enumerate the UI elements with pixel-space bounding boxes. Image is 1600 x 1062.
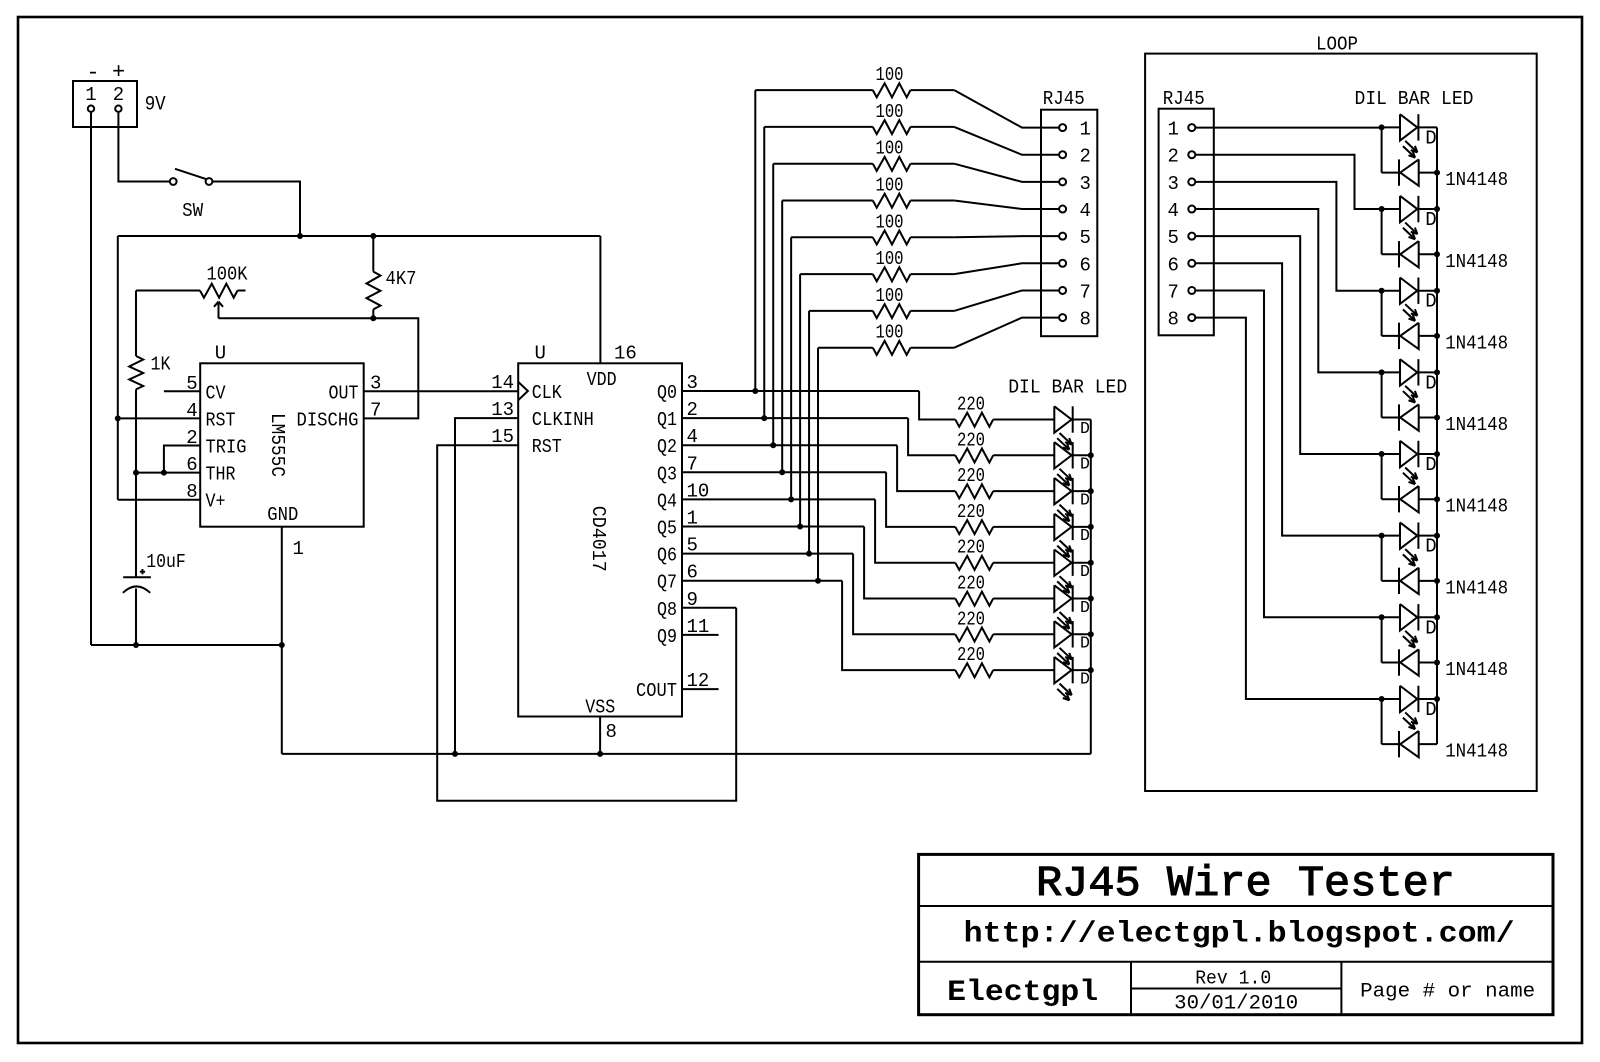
wire D10 anode to 1N4148 [1381, 209, 1383, 254]
J2 pin 6 number [1080, 254, 1091, 276]
LED D6 [1054, 585, 1072, 628]
wire 1N4148 D23 cathode lead [1382, 662, 1399, 664]
J3 pin 8 circle [1188, 314, 1195, 321]
resistor R6 100 body [800, 267, 954, 281]
wire wiper to DISCHG [219, 318, 419, 418]
wire D16 anode to 1N4148 [1381, 699, 1383, 744]
wire CLKINH pin 13 to ground rail [455, 418, 518, 754]
svg-text:D: D [1080, 669, 1090, 688]
LED D12 label D [1425, 372, 1436, 394]
resistor R8 100 body [818, 341, 954, 355]
svg-text:1: 1 [85, 84, 96, 106]
svg-text:D: D [1080, 419, 1090, 438]
switch SW throw circle [206, 178, 213, 185]
wire 1N4148 D19 cathode lead [1382, 335, 1399, 337]
svg-text:220: 220 [957, 465, 985, 487]
J3 pin 4 number [1167, 200, 1178, 222]
U2 pin 1 number [687, 508, 698, 530]
title block vertical divider 2 [1340, 962, 1342, 1015]
LOOP label [1316, 34, 1358, 56]
U2 pin 16 number [614, 343, 637, 365]
wire Q2 to 220 row 3 [897, 445, 955, 491]
U2 pin 7 number [687, 453, 698, 475]
junction LED D9 anode [1379, 124, 1385, 130]
wire right cathode bus [1436, 127, 1438, 744]
wire 1N4148 D20 cathode lead [1382, 417, 1399, 419]
svg-text:D: D [1080, 562, 1090, 581]
svg-text:D: D [1425, 291, 1436, 313]
J3 pin 5 number [1167, 227, 1178, 249]
wire Vcc rail [118, 235, 601, 237]
wire 4K7 top lead [372, 236, 374, 272]
svg-text:220: 220 [957, 501, 985, 523]
svg-text:1: 1 [1167, 119, 1178, 141]
svg-text:220: 220 [957, 644, 985, 666]
junction LED D14 anode [1379, 533, 1385, 539]
wire CV stub pin 5 [164, 390, 200, 392]
wire 1N4148 D18 cathode lead [1382, 253, 1399, 255]
svg-text:1N4148: 1N4148 [1445, 577, 1508, 599]
diode 1N4148 D18 [1399, 241, 1419, 267]
LED D4 label D [1080, 526, 1090, 545]
junction Q2/100ohm [770, 442, 776, 448]
U2 CLK input triangle [518, 382, 528, 400]
wire D14 anode to 1N4148 [1381, 536, 1383, 581]
junction right bus LED row 6 [1434, 533, 1440, 539]
U2 pin 6 number [687, 562, 698, 584]
U1 RST label [206, 409, 236, 431]
svg-text:Q9: Q9 [657, 626, 677, 648]
junction GND/battery minus rail [279, 642, 285, 648]
U1 pin 8 number [186, 481, 197, 503]
wire LED D9 cathode to bus [1418, 126, 1437, 128]
junction LED D13 anode [1379, 451, 1385, 457]
wire 1N4148 D21 anode to bus [1419, 498, 1437, 500]
svg-text:LM555C: LM555C [266, 413, 288, 477]
wire 1N4148 D17 cathode lead [1382, 172, 1399, 174]
U2 pin 15 number [491, 426, 514, 448]
U2 Q7 label [657, 572, 677, 594]
svg-text:D: D [1425, 372, 1436, 394]
battery connector J1 9V [73, 81, 137, 127]
LED D16 label D [1425, 699, 1436, 721]
wire 100K to 1K [135, 291, 137, 357]
battery polarity minus [86, 61, 99, 86]
U1 pin 6 number [186, 454, 197, 476]
junction LED D11 anode [1379, 288, 1385, 294]
svg-text:Q8: Q8 [657, 599, 677, 621]
J2 pin 2 circle [1059, 151, 1066, 158]
junction right bus diode row 3 [1434, 333, 1440, 339]
U1 pin 3 number [370, 372, 381, 394]
U2 CLK label [532, 382, 563, 404]
svg-text:6: 6 [1080, 254, 1091, 276]
resistor R8 100 label [876, 322, 904, 344]
svg-text:1N4148: 1N4148 [1445, 414, 1508, 436]
svg-text:U: U [215, 343, 226, 365]
U2 pin 13 number [491, 399, 514, 421]
svg-text:RST: RST [206, 409, 236, 431]
title block vertical divider 1 [1130, 962, 1132, 1015]
junction right bus diode row 2 [1434, 251, 1440, 257]
resistor R1 100 body [755, 83, 954, 97]
junction Q0/100ohm [752, 388, 758, 394]
J2 pin 3 circle [1059, 178, 1066, 185]
svg-text:CD4017: CD4017 [587, 506, 609, 572]
U1 V+ label [206, 491, 226, 513]
U1 OUT label [329, 382, 359, 404]
title page [1360, 981, 1535, 1004]
svg-text:1N4148: 1N4148 [1445, 251, 1508, 273]
battery J1 pin 1 circle [88, 106, 94, 112]
diode D18 label 1N4148 [1445, 251, 1508, 273]
svg-text:7: 7 [1167, 281, 1178, 303]
wire R6 to RJ45 pin 6 [954, 263, 1059, 274]
wire R2 to Q1 [763, 127, 765, 418]
resistor R15 220 label [957, 608, 985, 630]
svg-text:Q6: Q6 [657, 545, 677, 567]
battery value 9V [145, 94, 166, 117]
svg-text:TRIG: TRIG [206, 437, 247, 459]
U1 designator U [215, 343, 226, 365]
junction TRIG/THR [161, 470, 167, 476]
resistor R11 220 body [955, 484, 1054, 498]
wire LED D2 cathode to bus [1073, 454, 1091, 456]
svg-text:VDD: VDD [587, 369, 617, 391]
potentiometer 100K body [200, 284, 246, 298]
wire Q1 to 220 row 2 [908, 418, 955, 455]
battery J1 pin label 1 [85, 84, 96, 106]
J2 pin 7 number [1080, 281, 1091, 303]
junction right bus LED row 2 [1434, 206, 1440, 212]
wire Q0 output [682, 390, 919, 392]
wire switch to Vcc rail [212, 182, 300, 237]
wire 1N4148 D20 anode to bus [1419, 417, 1437, 419]
svg-text:3: 3 [1080, 173, 1091, 195]
U1 THR label [206, 464, 236, 486]
wire 1N4148 D19 anode to bus [1419, 335, 1437, 337]
resistor R4 100 label [876, 175, 904, 197]
svg-text:7: 7 [1080, 281, 1091, 303]
J2 pin 8 number [1080, 309, 1091, 331]
U1 DISCHG label [297, 409, 359, 431]
U2 Q5 label [657, 518, 677, 540]
U1 pin 2 number [186, 427, 197, 449]
U2 pin 12 number [687, 670, 710, 692]
J2 pin 2 number [1080, 146, 1091, 168]
svg-text:4K7: 4K7 [386, 268, 417, 290]
svg-text:1N4148: 1N4148 [1445, 332, 1508, 354]
svg-text:D: D [1080, 526, 1090, 545]
svg-text:2: 2 [1080, 146, 1091, 168]
svg-text:Page # or name: Page # or name [1360, 981, 1535, 1004]
title block divider 2 [919, 961, 1553, 963]
LED D2 [1054, 442, 1072, 485]
resistor R3 100 label [876, 138, 904, 160]
junction left bus row 8 [1088, 667, 1094, 673]
J3 pin 6 number [1167, 254, 1178, 276]
wire R7 to Q6 [808, 311, 810, 554]
svg-text:1N4148: 1N4148 [1445, 741, 1508, 763]
U2 Q2 label [657, 436, 677, 458]
junction right bus LED row 3 [1434, 288, 1440, 294]
resistor 4K7 body [367, 272, 381, 310]
LED D1 [1054, 406, 1072, 449]
svg-text:D: D [1425, 617, 1436, 639]
resistor R16 220 body [955, 663, 1054, 677]
svg-text:OUT: OUT [329, 382, 359, 404]
svg-text:CV: CV [206, 382, 227, 404]
svg-text:7: 7 [370, 399, 381, 421]
wire LED D5 cathode to bus [1073, 562, 1091, 564]
wire LED D6 cathode to bus [1073, 598, 1091, 600]
right DIL BAR LED label [1355, 88, 1474, 110]
connector RJ45 J2 label [1043, 88, 1085, 110]
diode 1N4148 D17 [1399, 159, 1419, 185]
resistor R13 220 label [957, 537, 985, 559]
wire 1N4148 D24 cathode lead [1382, 743, 1399, 745]
svg-text:1: 1 [1080, 119, 1091, 141]
J3 pin 8 number [1167, 309, 1178, 331]
svg-text:8: 8 [606, 721, 617, 743]
svg-text:DIL BAR LED: DIL BAR LED [1355, 88, 1474, 110]
U1 TRIG label [206, 437, 247, 459]
battery J1 pin 2 circle [115, 106, 121, 112]
battery J1 pin label 2 [113, 84, 124, 106]
svg-text:-: - [86, 61, 99, 86]
LED D2 label D [1080, 455, 1090, 474]
LED D10 label D [1425, 209, 1436, 231]
junction right bus diode row 6 [1434, 578, 1440, 584]
wire Q5 output [682, 526, 864, 528]
wire RST pin 4 [118, 417, 200, 419]
diode D20 label 1N4148 [1445, 414, 1508, 436]
junction right bus diode row 7 [1434, 660, 1440, 666]
LED D15 [1400, 604, 1418, 647]
svg-text:1N4148: 1N4148 [1445, 496, 1508, 518]
junction right bus LED row 4 [1434, 369, 1440, 375]
wire OUT to CLK [364, 390, 519, 392]
capacitor C1 value 10uF [146, 551, 186, 573]
svg-text:Q0: Q0 [657, 382, 677, 404]
U2 VSS label [585, 697, 615, 719]
svg-text:8: 8 [1080, 309, 1091, 331]
resistor R13 220 body [955, 556, 1054, 570]
diode D23 label 1N4148 [1445, 659, 1508, 681]
U2 pin 2 number [687, 399, 698, 421]
U2 pin 10 number [687, 480, 710, 502]
wire TRIG pin 2 [164, 446, 200, 473]
wire R4 to RJ45 pin 4 [954, 201, 1059, 210]
svg-text:CLK: CLK [532, 382, 563, 404]
svg-text:3: 3 [1167, 173, 1178, 195]
capacitor C1 curved plate [123, 586, 150, 592]
title block divider 1 [919, 905, 1553, 907]
svg-text:9V: 9V [145, 94, 166, 117]
U2 designator U [534, 343, 545, 365]
wire Q7 to 220 row 8 [842, 581, 955, 670]
LED D14 [1400, 522, 1418, 565]
wire 1N4148 D18 anode to bus [1419, 253, 1437, 255]
svg-text:16: 16 [614, 343, 637, 365]
wire R1 to Q0 [754, 90, 756, 391]
wire Q4 to 220 row 5 [875, 499, 955, 562]
wire LED D16 anode [1382, 698, 1400, 700]
wire D13 anode to 1N4148 [1381, 454, 1383, 499]
J3 pin 1 number [1167, 119, 1178, 141]
title date [1174, 993, 1298, 1016]
J3 pin 5 circle [1188, 233, 1195, 240]
svg-text:10uF: 10uF [146, 551, 186, 573]
LED D9 [1400, 114, 1418, 157]
U2 pin 4 number [687, 426, 698, 448]
resistor R14 220 body [955, 592, 1054, 606]
wire left LED cathode bus [1090, 420, 1092, 754]
U1 name LM555C [266, 413, 288, 477]
wire R6 to Q5 [799, 274, 801, 526]
U2 CLKINH label [532, 409, 594, 431]
title block box [919, 854, 1553, 1014]
wire D15 anode to 1N4148 [1381, 617, 1383, 662]
connector RJ45 J3 box [1159, 109, 1214, 336]
svg-text:D: D [1080, 634, 1090, 653]
wire 1K to THR and capacitor [135, 389, 137, 577]
diode 1N4148 D23 [1399, 649, 1419, 675]
J2 pin 7 circle [1059, 287, 1066, 294]
svg-text:5: 5 [1080, 227, 1091, 249]
J3 pin 6 circle [1188, 260, 1195, 267]
junction switch/Vcc rail [297, 233, 303, 239]
svg-text:D: D [1425, 699, 1436, 721]
svg-text:Q4: Q4 [657, 490, 677, 512]
wire Q8 output [682, 607, 736, 609]
junction LED D16 anode [1379, 696, 1385, 702]
resistor R1 100 label [876, 64, 904, 86]
LED D12 [1400, 359, 1418, 402]
title url [964, 918, 1515, 952]
junction RST tap [115, 415, 121, 421]
wire R5 to Q4 [790, 237, 792, 499]
svg-text:Electgpl: Electgpl [947, 976, 1098, 1010]
junction Q7/100ohm [815, 578, 821, 584]
LED D14 label D [1425, 536, 1436, 558]
resistor R11 220 label [957, 465, 985, 487]
svg-text:Q5: Q5 [657, 518, 677, 540]
svg-text:100K: 100K [207, 264, 249, 286]
connector RJ45 J2 box [1041, 110, 1097, 337]
wire J3 pin 4 to LED D12 [1195, 209, 1381, 372]
svg-text:2: 2 [113, 84, 124, 106]
U2 pin 9 number [687, 589, 698, 611]
wire battery pin1 to ground rail [90, 112, 92, 645]
J3 pin 3 number [1167, 173, 1178, 195]
resistor R12 220 body [955, 520, 1054, 534]
junction capacitor/minus rail [133, 642, 139, 648]
junction Q4/100ohm [788, 496, 794, 502]
wire LED D11 cathode to bus [1418, 290, 1437, 292]
svg-text:Q2: Q2 [657, 436, 677, 458]
LED D8 [1054, 657, 1072, 700]
svg-text:D: D [1425, 454, 1436, 476]
J2 pin 3 number [1080, 173, 1091, 195]
wire Q3 to 220 row 4 [886, 472, 955, 527]
wire R3 to RJ45 pin 3 [954, 164, 1059, 182]
diode D19 label 1N4148 [1445, 332, 1508, 354]
svg-text:THR: THR [206, 464, 236, 486]
J2 pin 1 number [1080, 119, 1091, 141]
wire Q2 output [682, 444, 897, 446]
wire LED D16 cathode to bus [1418, 698, 1437, 700]
J2 pin 6 circle [1059, 260, 1066, 267]
svg-text:DIL BAR LED: DIL BAR LED [1008, 377, 1127, 399]
wire Vcc rail down to U1 RST/V+ [117, 236, 119, 500]
resistor R12 220 label [957, 501, 985, 523]
LED D10 [1400, 196, 1418, 239]
resistor R16 220 label [957, 644, 985, 666]
diode 1N4148 D21 [1399, 486, 1419, 512]
wire Q0 to 220 row 1 [919, 391, 955, 420]
junction Q5/100ohm [797, 524, 803, 530]
svg-text:30/01/2010: 30/01/2010 [1174, 993, 1298, 1016]
junction right bus diode row 1 [1434, 170, 1440, 176]
svg-text:GND: GND [267, 504, 298, 526]
svg-text:1N4148: 1N4148 [1445, 169, 1508, 191]
title text RJ45 Wire Tester [1036, 859, 1455, 908]
svg-text:D: D [1425, 536, 1436, 558]
J2 pin 1 circle [1059, 124, 1066, 131]
wire D11 anode to 1N4148 [1381, 291, 1383, 336]
LED D3 label D [1080, 490, 1090, 509]
U2 Q4 label [657, 490, 677, 512]
junction VSS/ground [597, 751, 603, 757]
svg-text:COUT: COUT [636, 680, 677, 702]
svg-text:220: 220 [957, 537, 985, 559]
junction left bus row 4 [1088, 524, 1094, 530]
switch SW pole circle [170, 178, 177, 185]
J3 pin 4 circle [1188, 206, 1195, 213]
svg-text:Q1: Q1 [657, 409, 677, 431]
svg-text:220: 220 [957, 573, 985, 595]
U1 pin 5 number [186, 373, 197, 395]
U1 GND label [267, 504, 298, 526]
wire battery pin2 to switch [118, 112, 169, 182]
resistor R7 100 body [809, 304, 954, 318]
wire R1 to RJ45 pin 1 [954, 90, 1059, 128]
left DIL BAR LED label [1008, 377, 1127, 399]
J2 pin 4 circle [1059, 206, 1066, 213]
svg-text:8: 8 [1167, 309, 1178, 331]
LED D3 [1054, 478, 1072, 521]
resistor R2 100 label [876, 101, 904, 123]
wire LED D12 cathode to bus [1418, 371, 1437, 373]
connector RJ45 J3 label [1163, 88, 1205, 110]
diode D24 label 1N4148 [1445, 741, 1508, 763]
wire Q5 to 220 row 6 [864, 527, 955, 599]
junction LED D10 anode [1379, 206, 1385, 212]
U2 Q0 label [657, 382, 677, 404]
U2 Q1 label [657, 409, 677, 431]
LED D8 label D [1080, 669, 1090, 688]
svg-text:DISCHG: DISCHG [297, 409, 359, 431]
svg-text:4: 4 [1167, 200, 1178, 222]
wire LED D1 cathode to bus [1073, 419, 1091, 421]
wire 1N4148 D22 anode to bus [1419, 580, 1437, 582]
wire LED D10 anode [1382, 208, 1400, 210]
resistor R5 100 label [876, 211, 904, 233]
J3 pin 7 circle [1188, 287, 1195, 294]
junction LED D12 anode [1379, 369, 1385, 375]
junction 4K7 bottom/wiper wire [370, 315, 376, 321]
